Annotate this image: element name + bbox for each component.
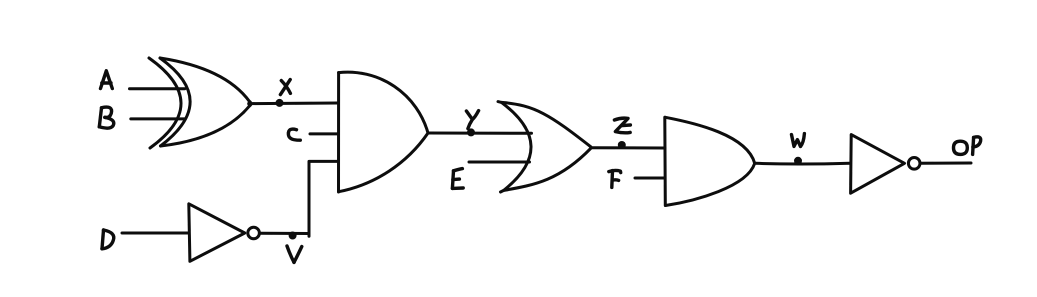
inverter U3 (D)	[189, 204, 245, 261]
label OP	[953, 137, 980, 155]
wire X: XOR output to AND1	[251, 102, 338, 106]
label B	[99, 107, 113, 128]
label W	[792, 134, 805, 147]
wire E input	[469, 161, 530, 164]
node V junction dot	[289, 232, 297, 240]
wire Z: OR output to AND2	[591, 146, 665, 149]
XOR tip ink blob	[247, 101, 252, 106]
wire OP output	[920, 162, 971, 165]
wire D input	[122, 232, 188, 235]
node W junction dot	[794, 157, 802, 165]
node X junction dot	[276, 99, 284, 107]
inverter U6 (output)	[851, 135, 905, 194]
node Z junction dot	[618, 141, 626, 149]
wire W: AND2 output to inverter	[755, 162, 850, 166]
XOR gate U1	[149, 58, 251, 148]
label C	[288, 129, 300, 140]
label Z	[614, 118, 630, 133]
wire Y: AND1 output to OR gate	[428, 132, 532, 135]
wire A input	[130, 87, 185, 90]
label V	[287, 246, 302, 262]
wire V: inverter output up to AND1	[260, 161, 338, 236]
wire B input	[131, 117, 185, 120]
label Y	[466, 111, 478, 129]
label A	[101, 71, 113, 89]
label D	[102, 230, 114, 249]
AND gate U2	[337, 73, 340, 192]
node Y junction dot	[467, 128, 475, 136]
inverter U3 bubble	[248, 227, 260, 239]
wire F input	[635, 177, 665, 180]
inverter U6 bubble	[908, 158, 920, 170]
AND gate U5	[663, 117, 667, 205]
OR gate U4	[498, 102, 591, 192]
label E	[452, 169, 463, 189]
label X	[280, 80, 290, 95]
label F	[609, 170, 621, 187]
wire C input	[310, 132, 338, 135]
